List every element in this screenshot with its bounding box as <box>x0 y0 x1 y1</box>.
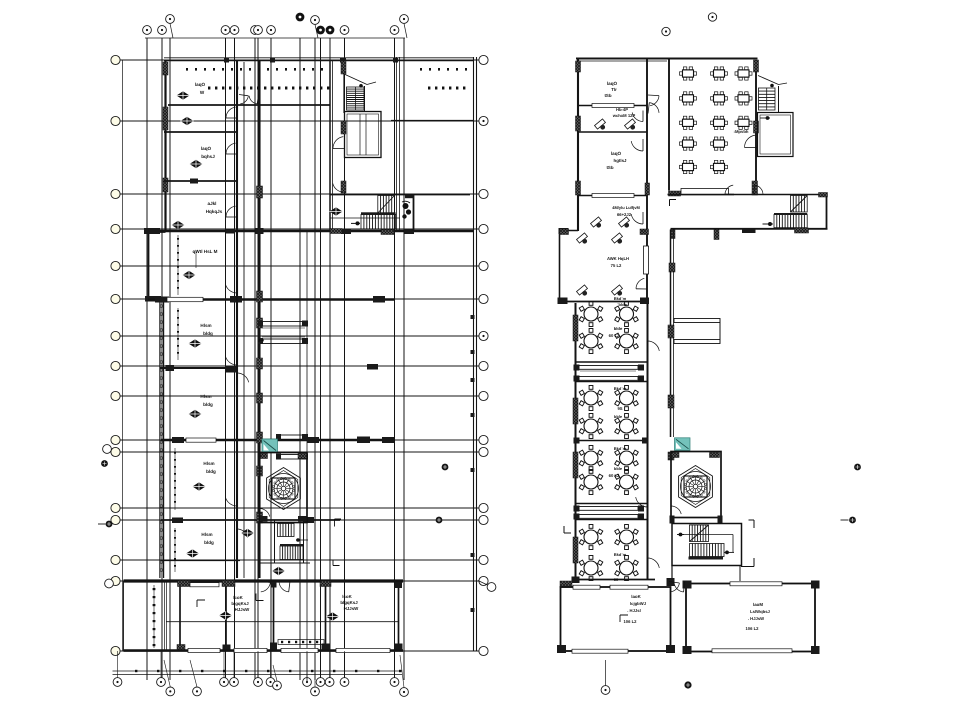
R stair rail <box>678 535 734 553</box>
wall y=181 <box>164 179 237 184</box>
grid bubble right y=266 <box>479 261 488 270</box>
svg-text:Hlsm: Hlsm <box>201 532 212 537</box>
svg-text:blgqKsJ: blgqKsJ <box>231 601 249 606</box>
west wall jog room4 <box>149 232 166 300</box>
tick on right wall y=555 <box>471 553 475 557</box>
right edge wall double <box>474 57 477 651</box>
R strip door1 <box>648 341 660 353</box>
square table r5c2 <box>711 160 728 173</box>
grid line H y=299 <box>113 298 479 300</box>
grid bubble top x=162 <box>158 26 167 35</box>
grid bubble left y=60 <box>111 55 120 64</box>
wall y218 <box>330 217 400 219</box>
svg-text:106 L2: 106 L2 <box>623 619 637 624</box>
R stair room box <box>672 524 742 566</box>
dome ornament R <box>679 466 713 508</box>
grid bubble bottom x=270.5 <box>266 678 275 687</box>
grid bubble top x=225.5 <box>221 26 230 35</box>
square table r3c3 <box>735 116 752 129</box>
R room1 label <box>604 81 617 98</box>
RB strip corner hatch <box>560 581 572 588</box>
stem slant 277 <box>273 665 277 681</box>
svg-text:W: W <box>200 90 205 95</box>
grid bubble left y=266 <box>111 261 120 270</box>
hatch y230 b <box>381 230 394 235</box>
corr window y394 <box>257 393 263 403</box>
grid line V x=170 <box>169 38 171 680</box>
survey circle d <box>98 521 112 528</box>
dining label <box>734 129 749 134</box>
svg-text:tSb: tSb <box>604 93 611 98</box>
square table r2c1 <box>680 92 697 105</box>
grid bubble top x=315 <box>311 16 320 25</box>
svg-text:60 L2: 60 L2 <box>609 333 620 338</box>
grid line V x=147 <box>146 38 148 680</box>
grid bubble bottom x=117.5 <box>113 678 122 687</box>
dining bottom hatch b <box>752 181 758 195</box>
corr hatch y363 <box>257 358 263 369</box>
grid bubble right y=60 <box>479 55 488 64</box>
south wall x180 <box>177 581 191 652</box>
R bridge 2 <box>574 506 645 520</box>
grid bubble left y=229 <box>111 224 120 233</box>
R west windows <box>576 61 581 195</box>
corridor east wall <box>258 60 260 578</box>
grid bubble left y=366 <box>111 361 120 370</box>
R strip label5 <box>609 446 627 478</box>
svg-text:Hlsm: Hlsm <box>200 394 211 399</box>
door arc room4 <box>225 281 237 293</box>
hostel room 3 label+fan <box>190 146 216 168</box>
wall y=132 <box>164 131 237 133</box>
window west y68 <box>163 62 168 75</box>
R stair hatch band <box>689 557 724 560</box>
dining east windows <box>754 60 759 133</box>
grid bubble bottom x=344.5 <box>340 678 349 687</box>
R room2 label <box>612 107 636 118</box>
grid bubble top x=170 <box>166 15 175 24</box>
square table r4c2 <box>711 137 728 150</box>
R NE stair flight <box>759 88 776 110</box>
dining east wall <box>755 60 757 195</box>
R wing door2 <box>632 111 643 122</box>
round table 16 <box>615 556 639 581</box>
grid bubble left y=452 <box>111 447 120 456</box>
bubble stem x=315 <box>315 24 318 38</box>
grid bubble right y=194 <box>479 189 488 198</box>
svg-text:LslWqbsJ: LslWqbsJ <box>750 609 770 614</box>
wall y=231 thick <box>147 230 473 233</box>
room SW corner mark <box>197 600 205 607</box>
R strip wall y362 <box>576 361 648 363</box>
door arc room5 <box>225 353 237 365</box>
svg-text:blde: blde <box>614 326 623 331</box>
grid line V x=162 <box>161 38 163 680</box>
grid line V x=320.5 <box>320 38 322 680</box>
corr hatch y296 <box>257 291 263 302</box>
grid bubble left y=440 <box>111 435 120 444</box>
corr window y231 <box>256 228 264 234</box>
window west y107 <box>163 107 168 130</box>
grid bubble right y=440 <box>479 435 488 444</box>
mid stair arrow <box>351 221 360 225</box>
walls x394-404 upper <box>397 57 400 231</box>
grid line V x=271 <box>270 38 272 680</box>
svg-text:106 L2: 106 L2 <box>745 626 759 631</box>
east wall of room column <box>237 60 244 578</box>
door arc room1 <box>226 107 237 118</box>
grid bubble bottom x=234 <box>230 678 239 687</box>
S diamond a <box>241 529 254 537</box>
dining west wall <box>668 58 670 191</box>
vert dim strip x178b <box>177 308 179 360</box>
R corridor stairs lower <box>774 213 807 228</box>
R wall y231 <box>559 228 579 234</box>
dim ticks row y69b <box>420 68 467 71</box>
hostel room 8 label+fan <box>193 461 217 491</box>
wall y=231 blocks <box>144 228 414 234</box>
RB corner mark left <box>620 615 628 622</box>
grid bubble left y=520 <box>111 515 120 524</box>
R wing door1 <box>648 95 659 114</box>
R circle top a <box>662 27 670 35</box>
grid line H y=60 <box>113 59 479 61</box>
round table 13 <box>579 525 603 550</box>
grid bubble right y=336 <box>479 331 488 340</box>
tick on right wall y=317 <box>471 315 475 319</box>
NE stair diagonal <box>344 74 376 88</box>
grid line H y=651 <box>113 650 479 652</box>
svg-text:bldg: bldg <box>204 540 214 545</box>
mid stair east wall <box>413 195 415 231</box>
svg-text:tSb: tSb <box>606 165 613 170</box>
label room S1 <box>231 595 250 612</box>
grid bubble left y=651 <box>111 646 120 655</box>
grid line H y=452 <box>113 451 479 453</box>
dome room box <box>260 453 308 523</box>
construction line x=122.5 <box>122 60 124 651</box>
corr window y192 <box>257 186 263 198</box>
R bridge 1 <box>574 365 645 382</box>
grid line H y=194 <box>113 193 479 195</box>
R annex bottom wall <box>558 229 650 304</box>
svg-text:. HJJsW: . HJJsW <box>748 616 764 621</box>
S2 diamond <box>326 612 339 620</box>
svg-text:Bkd`m: Bkd`m <box>614 446 627 451</box>
grid bubble left y=396 <box>111 391 120 400</box>
square table r1c1 <box>680 67 697 80</box>
extra grid bubble left y=452 <box>103 445 112 454</box>
R NE diagonal <box>758 76 787 88</box>
hatch y230 a <box>330 229 342 234</box>
door arc room7 <box>225 494 237 506</box>
grid bubble right y=229 <box>479 224 488 233</box>
survey circle b <box>442 464 449 471</box>
R corridor right wall <box>826 195 828 230</box>
grid line H y=336 <box>113 335 479 337</box>
grid line V x=300 <box>299 38 301 680</box>
tick on right wall y=352 <box>471 350 475 354</box>
grid bubble left y=560 <box>111 555 120 564</box>
dome ornament L <box>267 468 301 510</box>
svg-text:blde: blde <box>614 466 623 471</box>
south wall x398 <box>395 581 403 651</box>
R strip label6 <box>614 552 627 582</box>
RB windows bottom <box>572 649 792 653</box>
bridge 1 <box>258 321 308 345</box>
R corridor hatch top <box>819 193 828 198</box>
S stair flight lower <box>280 544 303 560</box>
square table r3c2 <box>711 116 728 129</box>
R stair room stubs <box>672 566 740 582</box>
R dome room blocks <box>670 453 723 524</box>
vert dim strip x175 lower <box>174 448 176 510</box>
top dimension line <box>145 37 405 39</box>
grid line H y=121 <box>113 120 479 122</box>
svg-text:laqO: laqO <box>611 151 622 156</box>
grid bubble left y=299 <box>111 294 120 303</box>
R wing door3 <box>631 139 643 151</box>
grid bubble top x=394.5 <box>390 26 399 35</box>
south entry doors <box>260 581 291 592</box>
dining bottom window <box>681 189 729 195</box>
wall y=520 <box>161 517 340 523</box>
grid line H y=581 <box>113 580 479 582</box>
bracket mid b <box>333 560 340 566</box>
R stair upper flight <box>690 525 709 542</box>
grid bubble bottom x=170.3 <box>166 687 175 696</box>
dining double door <box>725 185 763 194</box>
R spine wall <box>671 230 674 438</box>
R strip wall y580 <box>572 577 656 584</box>
grid line H y=366 <box>113 365 479 367</box>
round table 1 <box>579 302 603 327</box>
grid bubble bottom x=224 <box>220 678 229 687</box>
svg-text:lcoK: lcoK <box>342 594 352 599</box>
door+hatch x343 y185 <box>333 181 346 193</box>
R annex east window <box>644 246 649 274</box>
vert dim strip x196 <box>195 250 197 268</box>
grid bubble top x=258 <box>254 26 263 35</box>
svg-text:3-4: 3-4 <box>258 338 265 343</box>
svg-text:HqkqJs: HqkqJs <box>206 209 223 214</box>
R annex label <box>607 256 629 268</box>
grid bubble top x=234.5 <box>230 26 239 35</box>
R annex west wall <box>559 230 561 303</box>
round table 4 <box>615 329 639 354</box>
svg-text:Bkd`m: Bkd`m <box>614 552 627 557</box>
R corridor arrow <box>763 222 774 226</box>
svg-text:. HJJsl: . HJJsl <box>627 608 641 613</box>
construction line x=307 <box>306 230 308 683</box>
R circle top b <box>708 13 716 21</box>
R wall y196 <box>578 194 647 198</box>
R NE annex box <box>758 113 794 157</box>
R corridor hatch b2 <box>714 230 719 240</box>
grid bubble bottom x=307 <box>303 678 312 687</box>
R strip wall y519 <box>576 519 648 521</box>
square table r1c2 <box>711 67 728 80</box>
svg-text:wchxM 12P: wchxM 12P <box>612 113 636 118</box>
grid line H y=266 <box>113 265 479 267</box>
door arc room8 <box>237 529 248 540</box>
grid bubble right y=651 <box>479 646 488 655</box>
south wall x273 <box>270 582 277 651</box>
R corridor top wall <box>668 194 827 196</box>
R north wall <box>576 59 758 62</box>
grid line H y=520 <box>113 519 479 521</box>
square table r3c1 <box>680 116 697 129</box>
R spine hatches <box>668 263 675 408</box>
round table 3 <box>579 329 603 354</box>
square table r5c1 <box>680 160 697 173</box>
grid bubble bottom x=161 <box>157 678 166 687</box>
S stair flight upper <box>278 524 295 537</box>
double door top corridor <box>239 95 259 104</box>
grid bubble top x=330 <box>326 26 335 35</box>
grid bubble bottom x=315 <box>311 687 320 696</box>
wall y563 center <box>259 562 310 564</box>
grid line V x=394.5 <box>394 38 396 680</box>
svg-text:lcoK: lcoK <box>233 595 243 600</box>
diamond mid <box>330 207 343 215</box>
R corridor hatch b1 <box>671 230 676 239</box>
mid stair upper flight <box>378 196 395 214</box>
south dim line <box>113 670 403 675</box>
grid bubble top x=320.5 <box>316 26 325 35</box>
R dome door <box>671 506 681 517</box>
grid bubble left y=508 <box>111 503 120 512</box>
S stair walls <box>275 520 304 563</box>
label 3-4 <box>258 338 265 343</box>
svg-text:75 L2: 75 L2 <box>611 263 622 268</box>
door arc room2 <box>226 143 237 154</box>
R teal marker <box>675 438 691 451</box>
grid line V x=234.5 <box>234 38 236 680</box>
grid line V x=225.5 <box>225 38 227 680</box>
S1 diamond <box>219 611 232 619</box>
grid bubble right y=452 <box>479 447 488 456</box>
R room2 desks <box>595 119 639 133</box>
corr window y470 <box>257 466 263 476</box>
square table r4c1 <box>680 137 697 150</box>
stem slant 197 <box>190 660 197 687</box>
svg-text:laqO: laqO <box>201 146 212 151</box>
R circle right a <box>854 464 861 471</box>
stem slant 315 <box>314 675 316 687</box>
grid bubble bottom x=320.5 <box>316 678 325 687</box>
stem slant 170 <box>164 660 170 687</box>
svg-text:4M/ylu LulfjvM: 4M/ylu LulfjvM <box>612 205 640 210</box>
R stair arrow b <box>724 551 734 555</box>
grid line H y=560 <box>113 559 479 561</box>
NE core inner lines <box>360 114 366 155</box>
vert dim strip x178 <box>177 235 179 295</box>
NE stair flight <box>347 87 365 110</box>
wall y195 <box>330 194 470 196</box>
grid line V x=330 <box>329 38 331 680</box>
svg-text:laoK: laoK <box>631 594 641 599</box>
R room4 label <box>612 205 640 217</box>
grid line V x=344.5 <box>344 38 346 680</box>
RB right room box <box>686 584 815 652</box>
R circle right b <box>841 517 856 524</box>
svg-text:66+2J2: 66+2J2 <box>617 212 632 217</box>
south tick strip x154 <box>153 585 156 648</box>
S diamond b <box>272 567 285 575</box>
R wing door4 <box>631 212 643 224</box>
NE core room <box>345 112 382 158</box>
R strip door2 <box>636 495 648 507</box>
south wall x325 <box>320 581 331 651</box>
south bottom wall <box>124 649 404 652</box>
grid line H y=440 <box>113 439 479 441</box>
R bracket d <box>741 558 754 567</box>
grid bubble right y=560 <box>479 555 488 564</box>
survey circle c <box>427 517 442 524</box>
svg-text:Hb-4P: Hb-4P <box>616 107 628 112</box>
grid bubble bottom x=197 <box>193 687 202 696</box>
wall y=560 <box>161 560 240 562</box>
svg-text:laqO: laqO <box>195 82 206 87</box>
grid line H y=508 <box>113 507 479 509</box>
S stair arrow <box>296 538 308 542</box>
grid bubble bottom x=258 <box>254 678 263 687</box>
corr hatch y517 <box>257 512 263 523</box>
RB label left <box>623 594 646 624</box>
round table 11 <box>579 470 603 495</box>
south windows bottom <box>188 648 390 652</box>
R corridor hatch b3 <box>742 229 756 234</box>
svg-text:HJJsW: HJJsW <box>235 607 250 612</box>
mid stair lower flight <box>361 212 396 229</box>
dim ticks row y88b <box>428 87 465 90</box>
R room4 desks <box>591 217 633 231</box>
south sill ticks <box>278 640 324 645</box>
round table 7 <box>579 414 603 439</box>
grid bubble bottom x=394.5 <box>390 678 399 687</box>
hostel room 2 label+fan <box>181 117 194 125</box>
svg-text:60 L2: 60 L2 <box>609 473 620 478</box>
label room S2 <box>340 594 359 611</box>
R NE arrow <box>760 116 770 120</box>
grid bubble right y=581 <box>479 576 488 585</box>
west wall upper <box>164 60 166 232</box>
svg-text:Tlr: Tlr <box>611 87 617 92</box>
tick on right wall y=415 <box>471 413 475 417</box>
R strip wall y440 <box>574 438 649 444</box>
svg-text:hgtlsJ: hgtlsJ <box>614 158 627 163</box>
west wall block y298 <box>145 296 161 302</box>
R wall y105 <box>578 104 647 108</box>
svg-text:Hlsm: Hlsm <box>200 323 211 328</box>
round table 5 <box>579 386 603 411</box>
round table 15 <box>579 556 603 581</box>
mid toilet blobs <box>402 201 411 219</box>
svg-text:laqO: laqO <box>607 81 618 86</box>
R wing hatch y188 <box>645 183 650 195</box>
grid bubble left y=336 <box>111 331 120 340</box>
grid bubble bottom x=277 <box>273 681 282 690</box>
grid bubble right y=396 <box>479 391 488 400</box>
R strip west wall <box>575 303 577 580</box>
R wall y132 <box>578 131 647 133</box>
wall y=440 thick <box>161 437 395 444</box>
grid line V x=315 <box>314 38 316 680</box>
south block top wall <box>124 579 404 582</box>
grid bubble right y=520 <box>479 515 488 524</box>
RB passage doors <box>669 582 685 593</box>
